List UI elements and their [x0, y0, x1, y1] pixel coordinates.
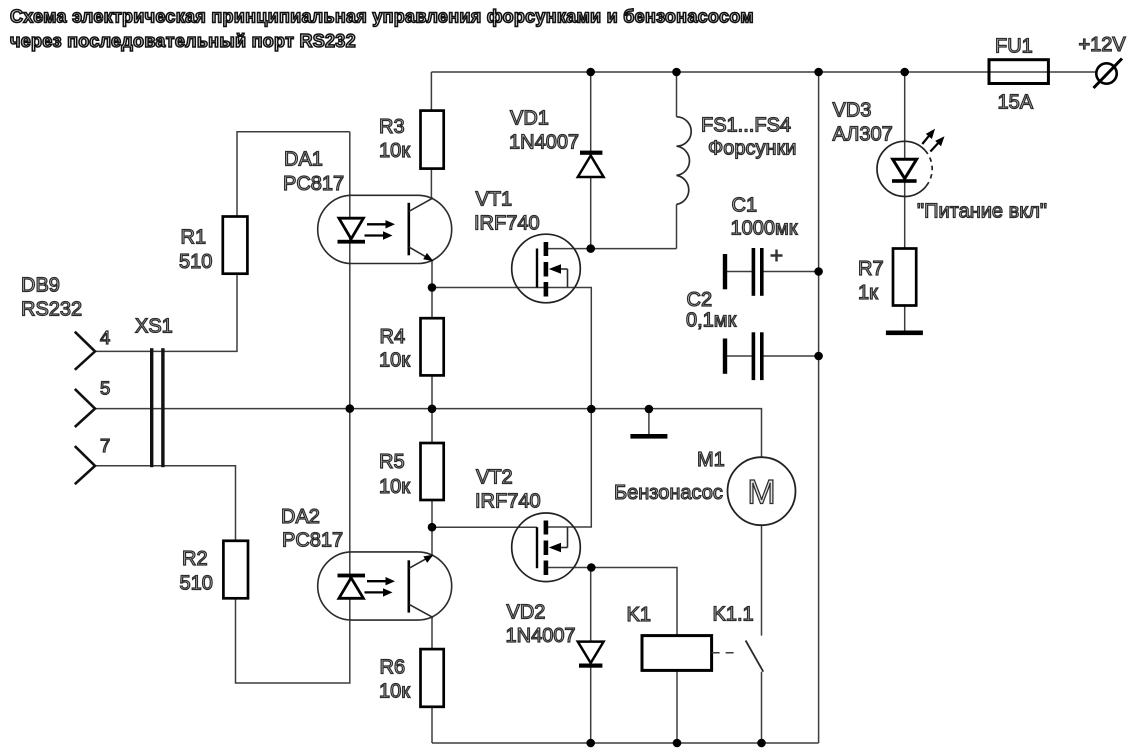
resistor R6	[421, 649, 444, 707]
wire C1 row	[727, 271, 819, 273]
svg-text:510: 510	[180, 573, 213, 595]
DA2 LED triangle	[339, 578, 364, 599]
DA2 LED cathode bar	[338, 574, 366, 578]
svg-text:VT2: VT2	[476, 467, 513, 489]
wire pin4 run: DB9 pin4 to R1 to DA1 anode	[95, 132, 350, 352]
resistor R3	[421, 111, 444, 169]
node VT1 drain / VD1	[586, 244, 595, 253]
VT2 body arrow	[549, 527, 568, 552]
VT2 gate bar	[536, 527, 538, 568]
connector XS1 pin 7 arrow	[75, 446, 95, 484]
DA2 body	[318, 552, 452, 620]
label pin numbers 4 5 7	[100, 327, 110, 456]
VT2 circle	[512, 513, 581, 582]
DA1 light arrow 2	[365, 231, 393, 239]
wire DA2 emitter column	[431, 527, 433, 556]
svg-text:М: М	[747, 474, 775, 512]
wire R5 column (common row to VT2 gate row)	[431, 409, 433, 527]
wire right rail	[818, 72, 820, 743]
svg-text:0,1мк: 0,1мк	[686, 310, 737, 332]
label FU1 15A	[995, 36, 1034, 114]
label VD1 1N4007	[509, 108, 579, 154]
label FS1...FS4 Форсунки	[701, 115, 796, 160]
DA1 collector line	[409, 198, 433, 212]
svg-text:FU1: FU1	[995, 36, 1033, 58]
svg-text:R6: R6	[380, 657, 406, 679]
+12V terminal	[1094, 59, 1123, 89]
resistor R1	[223, 217, 248, 274]
label DA2 PC817	[281, 506, 343, 552]
label M1 Бензонасос	[614, 449, 725, 504]
node common row / ground stub	[645, 405, 654, 414]
node top rail / right rail	[814, 68, 823, 77]
optocoupler DA2	[318, 552, 452, 620]
label R5 10к	[379, 451, 410, 498]
label DA1 PC817	[283, 149, 344, 196]
DA2 light arrow 1	[367, 577, 395, 585]
connector XS1 body (double bars)	[150, 348, 165, 467]
wire optocoupler diode column (DA1/DA2 LEDs) with loop to R2	[236, 132, 350, 683]
svg-text:VD1: VD1	[510, 108, 549, 130]
svg-text:VT1: VT1	[476, 189, 513, 211]
node DA1 emitter / R4 / VT1 gate	[428, 283, 437, 292]
VD3 emission arrow 2	[930, 136, 944, 151]
node VT2 source / VD2	[587, 563, 596, 572]
svg-text:C1: C1	[732, 195, 758, 217]
relay contact K1.1 dashed link	[712, 652, 737, 654]
VT1 channel dash source	[544, 282, 549, 297]
LED VD3	[877, 129, 945, 197]
svg-text:510: 510	[179, 251, 212, 273]
VD3 cathode bar	[892, 179, 917, 183]
svg-text:R3: R3	[379, 116, 405, 138]
optocoupler DA1	[318, 195, 452, 263]
label R4 10к	[379, 326, 410, 372]
svg-text:10к: 10к	[379, 681, 410, 703]
wire +12V top rail	[431, 71, 1095, 73]
svg-text:VD3: VD3	[833, 100, 872, 122]
svg-text:Бензонасос: Бензонасос	[614, 482, 723, 504]
svg-text:10к: 10к	[379, 140, 410, 162]
C1 plus sign	[771, 250, 783, 262]
connector XS1 pin 4 arrow	[75, 332, 95, 370]
node C1 / right rail	[814, 267, 823, 276]
svg-text:1N4007: 1N4007	[509, 132, 579, 154]
node common row / DA1 cathode	[346, 404, 355, 413]
DA2 light arrow 2	[365, 588, 393, 596]
svg-text:DA1: DA1	[284, 149, 323, 171]
node common row / VT1 source / VT2 drain	[587, 405, 596, 414]
DA1 emitter line with arrow	[409, 247, 434, 261]
svg-text:R1: R1	[181, 227, 207, 249]
svg-text:FS1...FS4: FS1...FS4	[701, 115, 791, 137]
resistor R7	[893, 249, 916, 306]
DA2 phototransistor base bar	[407, 560, 410, 612]
node bottom rail / K1	[673, 739, 682, 748]
diode VD1	[578, 151, 604, 177]
VT1 channel dash drain	[544, 242, 549, 256]
svg-text:R5: R5	[379, 451, 405, 473]
svg-text:7: 7	[100, 435, 110, 456]
connector XS1 pin 5 arrow	[75, 389, 95, 427]
VT2 channel dash drain	[544, 521, 549, 535]
wire R3 column (top rail to DA1 collector)	[430, 72, 432, 198]
svg-text:Форсунки: Форсунки	[708, 138, 796, 160]
resistor R2	[223, 541, 248, 599]
VD3 emission arrow 1	[922, 129, 935, 144]
svg-text:1N4007: 1N4007	[506, 625, 576, 647]
relay contact K1.1 blade	[746, 641, 764, 672]
node top rail / VD3	[900, 68, 909, 77]
DA1 phototransistor base bar	[407, 203, 410, 256]
wire K1 bottom lead	[676, 670, 678, 743]
svg-text:10к: 10к	[379, 476, 410, 498]
svg-text:R7: R7	[858, 258, 884, 280]
capacitor C1	[723, 248, 783, 296]
svg-text:PC817: PC817	[283, 173, 344, 195]
svg-text:1000мк: 1000мк	[731, 218, 798, 240]
VT2 channel dash source	[544, 561, 549, 576]
svg-text:M1: M1	[697, 449, 725, 471]
svg-text:15A: 15A	[998, 92, 1034, 114]
label R1 510	[179, 227, 212, 274]
node top rail / VD1	[586, 68, 595, 77]
label C2 0,1мк	[686, 289, 737, 332]
chassis ground (right, below R7)	[886, 331, 923, 336]
wire VT2 source row to K1	[547, 568, 677, 636]
svg-text:VD2: VD2	[507, 602, 546, 624]
svg-text:АЛ307: АЛ307	[833, 124, 893, 146]
wire DA2 collector to R6 to bottom rail	[431, 618, 433, 744]
VT2 channel dash body	[544, 541, 549, 556]
VT1 circle	[512, 234, 581, 303]
svg-text:XS1: XS1	[135, 316, 173, 338]
svg-text:IRF740: IRF740	[474, 213, 540, 235]
capacitor C2	[723, 332, 764, 380]
wire K1.1 bottom terminal	[761, 672, 763, 743]
fuse FU1	[989, 60, 1048, 84]
node bottom rail / K1.1	[757, 739, 766, 748]
svg-text:DB9: DB9	[21, 275, 60, 297]
DA1 light arrow 1	[367, 220, 395, 228]
label R6 10к	[379, 657, 410, 703]
wire VD1 column (top rail to drain row)	[590, 72, 592, 249]
DA1 LED cathode bar	[338, 240, 366, 244]
diode VD2	[578, 642, 604, 668]
node top rail / coil	[672, 68, 681, 77]
svg-text:"Питание вкл": "Питание вкл"	[917, 201, 1047, 223]
svg-text:IRF740: IRF740	[475, 491, 541, 513]
node common row / R4 R5	[428, 405, 437, 414]
relay coil K1	[642, 636, 712, 671]
svg-text:K1.1: K1.1	[713, 604, 754, 626]
VD3 triangle	[893, 159, 917, 178]
DA2 collector line (bottom)	[409, 604, 433, 617]
label VT2 IRF740	[475, 467, 541, 513]
motor M1	[728, 457, 796, 525]
label C1 1000мк	[731, 195, 798, 240]
DA2 emitter line with arrow (top)	[409, 555, 434, 569]
svg-text:10к: 10к	[379, 350, 410, 372]
svg-text:4: 4	[100, 327, 110, 348]
wire VT2 drain up to common row	[547, 409, 591, 527]
svg-text:5: 5	[100, 377, 110, 398]
label VD2 1N4007	[506, 602, 576, 648]
chassis ground (mid, common row)	[630, 434, 667, 439]
svg-text:R4: R4	[380, 326, 406, 348]
wire VD3 column (top rail through LED to R7 and ground)	[904, 72, 906, 331]
svg-text:через последовательный порт RS: через последовательный порт RS232	[10, 31, 356, 51]
label R7 1к	[858, 258, 884, 304]
MOSFET VT2	[512, 513, 581, 582]
wire bottom rail	[432, 742, 819, 744]
label R3 10к	[379, 116, 410, 162]
svg-text:+12V: +12V	[1079, 34, 1127, 56]
wire pin5 common row	[95, 409, 762, 636]
svg-text:Схема электрическая принципиал: Схема электрическая принципиальная управ…	[10, 7, 754, 27]
title	[10, 7, 754, 52]
VD3 circle	[877, 141, 932, 196]
svg-text:K1: K1	[627, 604, 651, 626]
svg-text:1к: 1к	[858, 282, 878, 304]
svg-text:R2: R2	[182, 548, 208, 570]
wire DA1 emitter to R4 to common row	[431, 260, 433, 409]
wire VT2 gate row	[432, 526, 537, 528]
node R5 / DA2 emitter / VT2 gate	[428, 523, 437, 532]
node bottom rail / VD2	[586, 739, 595, 748]
label VT1 IRF740	[474, 189, 540, 235]
label DB9 RS232	[21, 275, 82, 321]
VT1 channel dash body	[544, 262, 549, 277]
label R2 510	[180, 548, 213, 595]
label VD3 АЛ307	[833, 100, 893, 146]
wire pin7 run: DB9 pin7 to R2 top	[95, 466, 236, 599]
svg-text:C2: C2	[687, 289, 713, 311]
resistor R5	[421, 443, 444, 500]
wire VT1 gate row and VT1 source down to common row	[432, 288, 591, 410]
injector coil FS1...FS4	[677, 117, 692, 205]
wire coil column bottom lead	[676, 204, 678, 248]
wire coil column top lead	[676, 72, 678, 117]
DA1 LED triangle	[339, 218, 364, 239]
wire mid ground stub	[648, 409, 650, 434]
svg-text:DA2: DA2	[281, 506, 320, 528]
VT1 gate bar	[536, 249, 538, 288]
DA1 body	[318, 195, 452, 263]
wire VD2 column (source row to bottom rail)	[590, 568, 592, 744]
wire C2 row	[727, 355, 819, 357]
VT1 body arrow	[549, 264, 568, 287]
svg-text:RS232: RS232	[21, 299, 82, 321]
resistor R4	[421, 318, 444, 375]
wire VT1 drain row to injector coil	[547, 248, 677, 250]
MOSFET VT1	[512, 234, 581, 303]
node C2 / right rail	[814, 352, 823, 361]
svg-text:PC817: PC817	[282, 530, 343, 552]
